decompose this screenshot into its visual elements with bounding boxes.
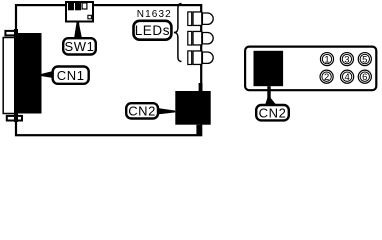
pin 6 [358,70,371,83]
LED 3 [188,51,213,65]
pin 5 [358,53,371,66]
svg-text:5: 5 [362,54,367,65]
CN2 arrow (card) [159,108,175,114]
connector CN2 pin bottom [196,125,201,135]
svg-text:CN1: CN1 [57,68,85,83]
pin 4 [341,70,354,83]
SW1 stub [76,22,79,26]
svg-text:3: 3 [344,54,349,65]
LED 2 [188,31,213,45]
label CN2 (panel) [256,105,289,120]
SW1 arrow [74,25,82,38]
svg-text:LEDs: LEDs [135,23,170,38]
svg-text:SW1: SW1 [65,39,95,54]
CN2 arrow (panel) [265,98,275,104]
svg-text:N1632: N1632 [137,9,172,20]
label CN1 [53,67,89,84]
svg-text:6: 6 [362,72,367,83]
label SW1 [63,38,96,54]
connector CN2 pin top [199,83,203,92]
connector CN1 D-sub shell [3,38,15,114]
pin 2 [320,70,333,83]
LED 1 [188,12,213,26]
LEDs brace [174,4,182,62]
CN2 jack stub [267,86,270,98]
switch SW1 jack box [66,2,93,22]
svg-text:CN2: CN2 [259,105,287,120]
wall plate panel [245,47,376,91]
CN1 screw post bottom [7,116,22,121]
svg-text:4: 4 [344,72,349,83]
CN1 arrow [42,71,52,77]
card outline [16,5,201,135]
connector CN1 body [16,33,42,114]
svg-text:2: 2 [324,72,329,83]
svg-text:1: 1 [324,54,329,65]
pin 1 [320,53,333,66]
connector CN2 jack opening [254,51,284,86]
label CN2 (card) [126,103,158,118]
SW1 jack bar 1 [68,3,74,10]
SW1 jack bar 3 [82,3,87,9]
connector CN2 body (card) [175,91,210,125]
label LEDs [134,21,172,40]
pin 3 [340,53,353,66]
CN1 bracket strip [14,29,18,122]
SW1 jack notch [88,15,92,18]
SW1 jack bar 2 [75,3,81,10]
svg-text:CN2: CN2 [128,104,156,119]
CN1 screw post top [5,31,17,36]
